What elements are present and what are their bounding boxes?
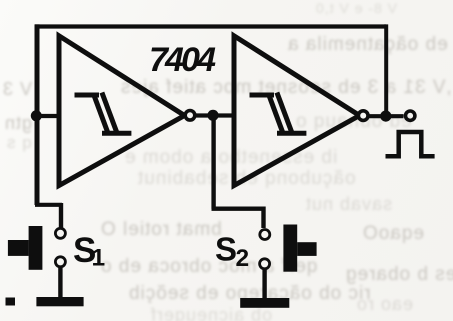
inverter U1B triangle [234,36,360,186]
wire top feedback [35,24,386,28]
wire left vertical [35,24,40,205]
switch S2 terminal bottom [260,259,270,269]
node B junction dot [207,110,218,121]
wire U1B output to terminal [369,114,404,118]
wire U1A output to U1B input [196,113,232,117]
node C junction dot [380,111,391,122]
hysteresis symbol U1B [250,93,307,135]
wire node A down to S1 [35,203,62,207]
ground S1 [36,297,83,306]
node A junction dot [31,110,42,121]
svg-text:2: 2 [236,245,250,272]
switch S1 terminal bottom [55,257,65,267]
output bubble U1A [185,111,195,121]
svg-text:S: S [215,230,237,267]
switch S2 terminal top [260,230,270,240]
svg-text:7404: 7404 [149,41,216,79]
wire S2 to ground [262,269,266,299]
wire node B down to S2 [211,115,215,209]
ground stub bottom-left edge [6,298,16,306]
output terminal circle [406,111,415,120]
wire S1 to ground [58,267,62,298]
wire input inverter 1 [36,114,59,118]
pulse waveform symbol [386,132,435,156]
switch S1 terminal top [55,228,65,238]
output bubble U1B [358,111,368,121]
wire right vertical [384,24,388,116]
switch S2 actuator [283,225,316,272]
switch S1 actuator [8,226,43,270]
hysteresis symbol U1A [75,93,132,135]
svg-text:1: 1 [92,245,106,272]
inverter U1A triangle [59,36,185,186]
ground S2 [240,298,289,308]
faint show-through text (mirrored, decorative) [315,0,397,16]
